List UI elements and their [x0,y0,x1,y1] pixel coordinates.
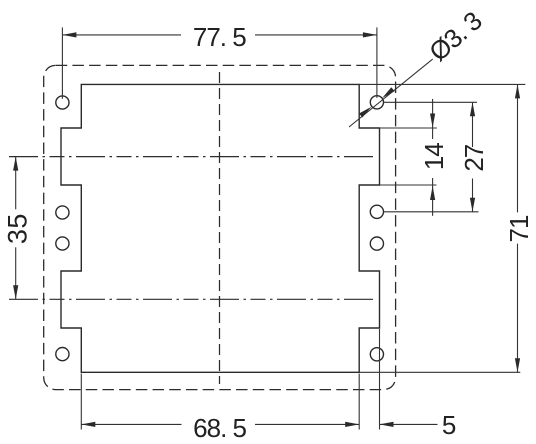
leader arrow lower [359,107,372,118]
svg-text:Ø3. 3: Ø3. 3 [423,6,487,67]
svg-text:68. 5: 68. 5 [193,413,246,443]
lower notch centerline [9,298,374,300]
hole mid-right lower [370,237,383,250]
reference line from notch top edge [380,127,437,129]
hole mid-right upper [370,205,383,218]
dimension 27 arrows [470,102,475,116]
dimension 5 extension line [379,329,381,430]
hole top-right [370,96,383,109]
svg-text:14: 14 [419,143,449,170]
dimension 71 extension lines [359,84,525,372]
hole mid-left lower [56,237,69,250]
hole bottom-left [56,348,69,361]
dimension 68.5 extension lines [81,374,359,430]
body cutout outline with side notches [61,84,380,372]
svg-text:71: 71 [504,215,534,242]
hole diameter leader line [349,59,433,127]
dimension 71 line [517,84,519,372]
dimension 71 arrows [515,84,520,98]
svg-text:27: 27 [459,144,489,171]
dimension 5 line and arrow [380,423,438,425]
svg-text:35: 35 [3,213,33,244]
cover outline (dashed rounded rectangle) [44,65,396,389]
hole mid-left upper [56,206,69,219]
reference line from mid-right hole center [384,211,479,213]
reference line from top-right hole center [384,101,478,103]
dimension 68.5 line and arrows [81,423,359,425]
svg-text:77. 5: 77. 5 [193,22,246,52]
hole top-left [56,96,69,109]
dimension 14 line [432,99,434,216]
leader arrow upper [382,87,395,98]
dimension 35 line and arrows [15,157,17,300]
dimension 27 line [472,102,474,212]
vertical centerline [219,72,221,384]
hole bottom-right [370,348,383,361]
dimension 77.5 extension lines [62,27,377,98]
dimension 77.5 line and arrows [62,34,377,36]
upper notch centerline [9,156,374,158]
svg-text:5: 5 [442,410,456,440]
dimension 14 arrows [430,114,435,128]
reference line from notch bottom edge [380,184,437,186]
